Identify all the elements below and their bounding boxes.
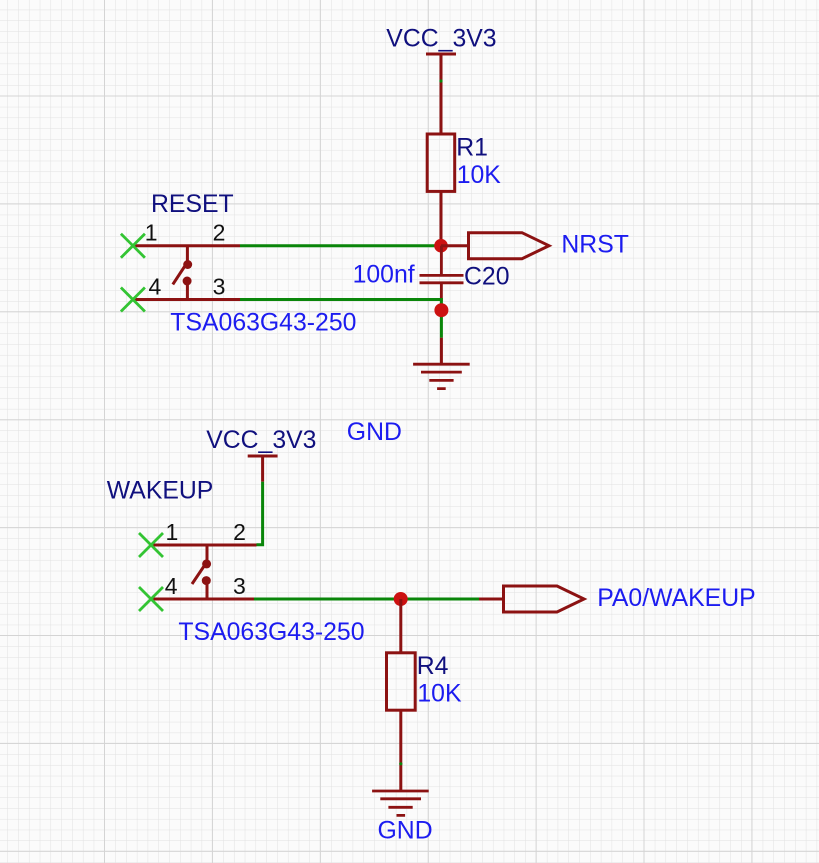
svg-text:VCC_3V3: VCC_3V3 — [386, 26, 496, 53]
svg-text:2: 2 — [233, 519, 246, 545]
value 100nf (C20) — [353, 261, 415, 288]
no-connect flag pin4 (WAKEUP) — [139, 587, 163, 611]
svg-text:C20: C20 — [464, 264, 510, 291]
wire (node to PA0 port) — [479, 598, 504, 601]
label R4 — [417, 653, 449, 680]
svg-text:10K: 10K — [457, 162, 502, 189]
svg-text:GND: GND — [378, 818, 433, 845]
value 10K (R1) — [457, 162, 502, 189]
svg-text:VCC_3V3: VCC_3V3 — [206, 427, 316, 454]
svg-text:GND: GND — [347, 419, 402, 446]
svg-text:1: 1 — [166, 519, 179, 545]
svg-text:TSA063G43-250: TSA063G43-250 — [178, 619, 364, 646]
wire PA0 net (pin3 to node) — [254, 598, 479, 601]
wire (VCC to pin2 WAKEUP) — [257, 482, 263, 545]
svg-text:NRST: NRST — [561, 231, 629, 258]
junction node PA0 — [394, 592, 408, 606]
value TSA063G43-250 (RESET) — [170, 309, 356, 336]
no-connect flag pin4 (RESET) — [121, 288, 145, 312]
ground GND (bottom) — [372, 791, 429, 815]
svg-text:RESET: RESET — [151, 191, 234, 218]
svg-text:PA0/WAKEUP: PA0/WAKEUP — [597, 585, 755, 612]
svg-text:R4: R4 — [417, 653, 449, 680]
net label GND (top) — [347, 419, 402, 446]
label C20 — [464, 264, 510, 291]
pin number 4 (RESET) — [149, 274, 162, 300]
resistor R1 — [427, 134, 455, 191]
label PA0/WAKEUP — [597, 585, 755, 612]
net label VCC_3V3 (bottom) — [206, 427, 316, 454]
no-connect flag pin1 (WAKEUP) — [139, 533, 163, 557]
label WAKEUP — [107, 478, 214, 505]
wire joint dot (R4 to GND flag) — [399, 762, 402, 765]
wire (R4 to ground) — [399, 710, 402, 791]
capacitor C20 — [420, 246, 464, 301]
svg-text:1: 1 — [145, 220, 158, 246]
pin number 2 (RESET) — [213, 220, 226, 246]
svg-text:TSA063G43-250: TSA063G43-250 — [170, 309, 356, 336]
junction node C20/GND — [434, 303, 448, 317]
label NRST — [561, 231, 629, 258]
power flag VCC_3V3 (bottom) — [248, 456, 278, 482]
svg-text:R1: R1 — [456, 135, 488, 162]
power flag VCC_3V3 (top) — [426, 54, 456, 134]
pin number 1 (WAKEUP) — [166, 519, 179, 545]
wire (node to ground) — [440, 338, 443, 365]
junction node NRST — [434, 239, 448, 253]
svg-text:100nf: 100nf — [353, 261, 415, 288]
wire (node to NRST port) — [441, 244, 469, 247]
svg-text:3: 3 — [213, 274, 226, 300]
wire (R1 to node NRST) — [440, 191, 443, 245]
pin number 3 (RESET) — [213, 274, 226, 300]
wire (node to R4) — [399, 599, 402, 653]
svg-text:WAKEUP: WAKEUP — [107, 478, 214, 505]
pin number 1 (RESET) — [145, 220, 158, 246]
pin number 3 (WAKEUP) — [233, 573, 246, 599]
svg-text:10K: 10K — [417, 681, 462, 708]
resistor R4 — [387, 653, 416, 710]
pushbutton WAKEUP TSA063G43-250 — [151, 545, 257, 599]
wire NRST net (pin2 to node) — [240, 244, 441, 247]
svg-text:3: 3 — [233, 573, 246, 599]
pushbutton RESET TSA063G43-250 — [133, 246, 240, 300]
no-connect flag pin1 (RESET) — [121, 234, 145, 258]
pin number 4 (WAKEUP) — [165, 573, 178, 599]
svg-text:2: 2 — [213, 220, 226, 246]
value 10K (R4) — [417, 681, 462, 708]
svg-text:4: 4 — [165, 573, 178, 599]
svg-text:4: 4 — [149, 274, 162, 300]
ground GND (top) — [413, 364, 470, 388]
wire (pin3 to GND node) — [240, 300, 441, 338]
label R1 — [456, 135, 488, 162]
wire (VCC pin to R1 pin) — [439, 79, 442, 82]
net label VCC_3V3 (top) — [386, 26, 496, 53]
net port NRST — [469, 233, 550, 259]
label RESET — [151, 191, 234, 218]
net label GND (bottom) — [378, 818, 433, 845]
value TSA063G43-250 (WAKEUP) — [178, 619, 364, 646]
net port PA0/WAKEUP — [504, 586, 585, 612]
pin number 2 (WAKEUP) — [233, 519, 246, 545]
